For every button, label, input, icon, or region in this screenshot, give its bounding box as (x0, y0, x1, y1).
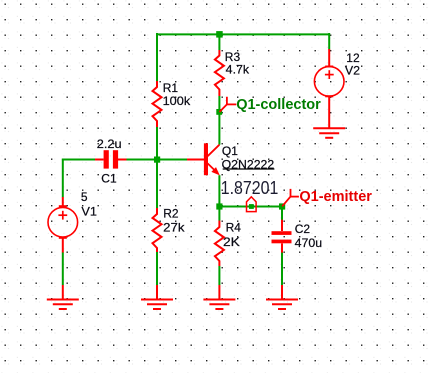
svg-text:C2: C2 (295, 222, 311, 236)
svg-text:V1: V1 (81, 205, 97, 219)
svg-text:R2: R2 (163, 206, 179, 220)
svg-text:27k: 27k (163, 220, 185, 234)
svg-text:4.7k: 4.7k (226, 63, 250, 77)
svg-text:Q1: Q1 (222, 144, 238, 158)
svg-text:1.87201: 1.87201 (221, 178, 278, 198)
svg-text:R4: R4 (226, 221, 242, 235)
svg-text:Q1-emitter: Q1-emitter (299, 189, 372, 205)
svg-text:V2: V2 (345, 64, 361, 78)
svg-text:C1: C1 (101, 172, 117, 186)
svg-text:470u: 470u (295, 236, 322, 250)
svg-text:Q1-collector: Q1-collector (236, 97, 321, 113)
svg-text:2.2u: 2.2u (97, 137, 122, 151)
svg-text:100k: 100k (163, 94, 192, 108)
svg-text:5: 5 (81, 190, 88, 204)
svg-text:2K: 2K (223, 235, 240, 249)
svg-text:R1: R1 (163, 81, 179, 95)
